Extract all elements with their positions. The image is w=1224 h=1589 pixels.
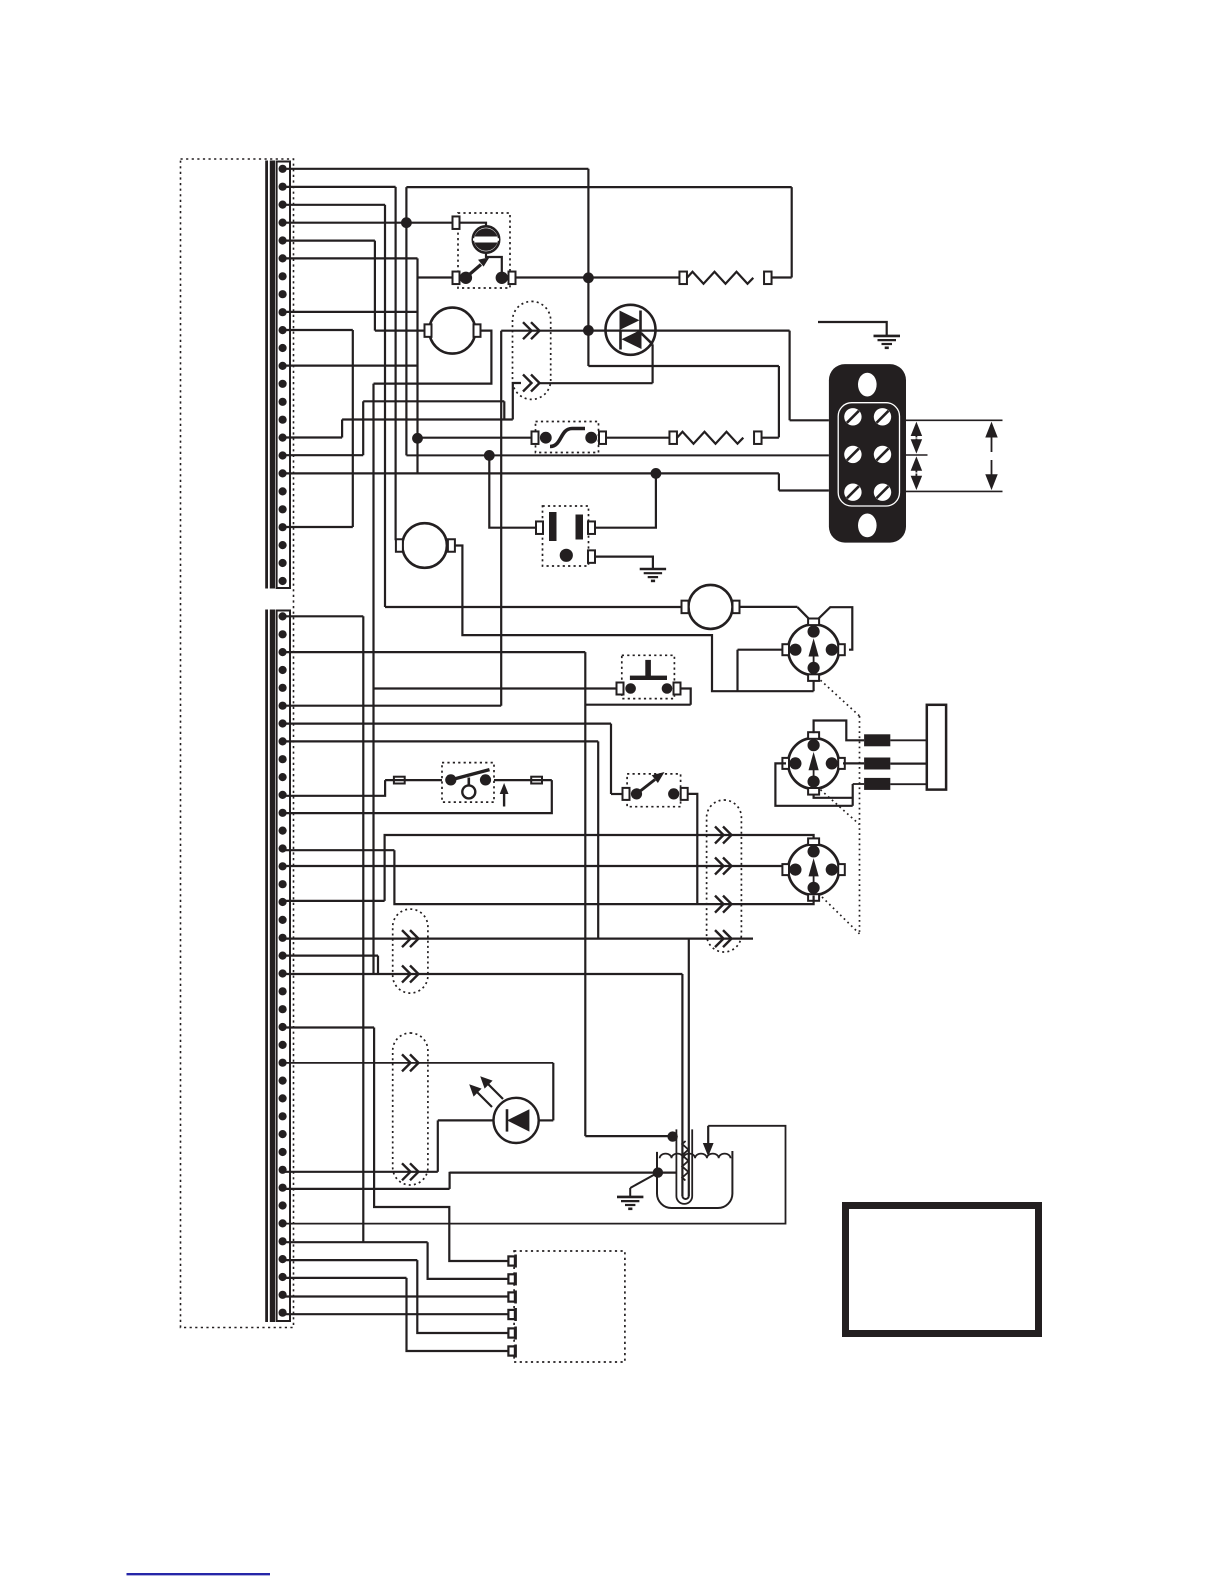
dimension line middle — [906, 454, 928, 456]
thermistor probe sheath — [676, 1129, 692, 1204]
wire L32 jog up to LED — [437, 1120, 439, 1171]
wire row L40 to CB-4 — [283, 1313, 509, 1315]
wire long vertical row3 to motor M3 row — [384, 205, 386, 607]
terminal SW3 right — [674, 683, 681, 695]
wire row5 terminal5 — [283, 240, 375, 242]
terminal strip lower: bars — [265, 610, 268, 1323]
wire SW3 right loop — [681, 689, 691, 705]
wire thermostat ST1 right to resistor R1 — [516, 276, 680, 278]
connector P5 dotted shell (2 pins) — [393, 1033, 428, 1185]
wire M2 right to valve V1 bottom — [455, 546, 814, 692]
dimension arrows outer column — [986, 423, 997, 489]
resistor R1 — [679, 272, 687, 285]
connector block CN1 body — [829, 364, 906, 542]
float switch SW2 dotted box — [442, 763, 494, 803]
wire long bus L3 to thermistor — [584, 652, 586, 1136]
terminal M3 left — [682, 601, 689, 614]
wire thermostat-top feed upper run — [406, 186, 791, 188]
pin P3-2 — [864, 758, 890, 770]
connector P1 dotted shell (2 pins) — [513, 301, 551, 399]
wire row17 run — [363, 400, 504, 402]
wire SW2 row left — [385, 779, 442, 781]
wire snubber drop to resistor R2 — [778, 366, 780, 437]
connector P2 dotted shell (4 pins) — [707, 800, 742, 952]
thermal cutoff switch SW1 dotted box — [536, 422, 599, 453]
wire chevron P1-2 left drop — [513, 383, 521, 420]
SW4 arrow actuator — [639, 772, 665, 792]
wire L38 to CB-6 — [407, 1278, 509, 1351]
wire motor M1 right return — [374, 331, 492, 384]
wire row10 terminal10 — [283, 329, 353, 331]
wire to pin3 — [853, 783, 864, 785]
SW4 contact left — [631, 788, 642, 799]
terminal strip lower: 40 terminal dots — [279, 612, 287, 1316]
terminal M2 left — [396, 539, 403, 552]
wire step to connector bottom row — [778, 473, 780, 490]
junction dot receptacle feed — [651, 468, 662, 479]
wire bus to thermistor top contact — [585, 1135, 672, 1137]
thermostat actuator arrow — [467, 257, 490, 276]
wire SW4 right drop — [688, 794, 698, 904]
dimension line top — [906, 419, 1003, 421]
inline terminal lugs SW2 — [394, 777, 405, 784]
SW2 travel arrow — [500, 783, 509, 807]
wire row L8 — [283, 740, 598, 742]
connector P2 pin2 chevron — [715, 858, 732, 875]
wire L33 jog — [449, 1172, 451, 1189]
wire LED left — [438, 1119, 494, 1121]
wire row L17 — [283, 900, 385, 902]
wire row2 terminal2 — [283, 186, 396, 188]
triac Q1 — [606, 305, 656, 355]
wire row5 drop — [374, 241, 376, 331]
terminal strip upper: bars — [265, 161, 268, 589]
wire thermistor lead right — [688, 939, 690, 1196]
resistor R2 — [669, 431, 677, 444]
wire into connector CN1 top — [790, 419, 829, 421]
SW4 contact right — [668, 788, 679, 799]
wire L37 to CB-5 — [417, 1260, 508, 1333]
wire row16 terminal16 — [283, 436, 342, 438]
wire row16 jog up — [341, 420, 343, 438]
wire L24 to CB-1 — [374, 1028, 509, 1262]
ground G1 symbol — [874, 336, 901, 348]
thermostat ST1 dotted box — [458, 213, 510, 288]
wire M3 right to valve V1 top (V split) — [740, 606, 798, 608]
wire row L7 — [283, 722, 611, 724]
wire motor M3 left feed — [385, 606, 682, 608]
timer assembly dashed enclosure — [181, 159, 294, 1328]
wire L20 jog — [377, 956, 379, 974]
wire chevron P1-1 row to triac — [501, 330, 588, 332]
connector P4 dotted shell (2 pins) — [393, 909, 428, 993]
wire SW3 right to bus — [585, 704, 690, 706]
SW1 bimetal curve — [550, 429, 585, 447]
wire row L19 through P2 pin4 — [283, 937, 753, 939]
wire to push switch SW3 left — [374, 687, 617, 689]
wire row L38 — [283, 1277, 407, 1279]
wire LED right drop — [552, 1063, 554, 1121]
wire row L11 jog — [283, 780, 385, 796]
tank electrode contact — [653, 1167, 663, 1177]
terminal CB-1 — [508, 1256, 515, 1265]
junction dot heater node — [583, 272, 594, 283]
wire row6 terminal6 — [283, 257, 418, 259]
wire L14 to valve V3 bottom — [394, 850, 813, 904]
dotted leader from valve V1 — [821, 680, 860, 716]
wire resistor R2 right stub — [762, 437, 779, 439]
wire L36 to CB-2 — [428, 1242, 509, 1279]
wire row L33 — [283, 1188, 450, 1190]
wire pin3 to header — [890, 783, 927, 785]
connector P5 pin2 chevron — [402, 1163, 419, 1180]
ground G2 symbol — [640, 569, 666, 581]
wire resistor R1 right — [772, 276, 792, 278]
terminal CB-5 — [508, 1328, 515, 1337]
wire pin2 to header — [890, 762, 927, 764]
wire to thermostat ST1 bottom-left — [418, 276, 453, 278]
wire long run to connector CN1 middle — [406, 454, 829, 456]
wire row L33 run to tank electrode — [450, 1171, 677, 1173]
wire row17 terminal17 — [283, 454, 363, 456]
terminal CB-6 — [508, 1346, 515, 1355]
thermostat internal wiring — [460, 223, 487, 227]
SW3 plunger — [645, 660, 651, 677]
wire row17 jog up — [362, 401, 364, 455]
wire row L37 — [283, 1259, 417, 1261]
junction dot triac anode — [583, 325, 594, 336]
wire junction J1 to SW1 — [418, 437, 532, 439]
wire long return bus to thermistor row — [372, 384, 374, 974]
dotted leader from valve V2 — [821, 790, 860, 825]
terminal SW4 right — [681, 788, 688, 800]
wire chevron P1-1 down to terminal L6 row — [500, 331, 502, 706]
wire LED right — [538, 1119, 553, 1121]
connector P4 pin1 chevron — [402, 930, 419, 947]
wire pin1 to header — [890, 739, 927, 741]
water fill arrow — [703, 1126, 714, 1157]
control board connector dotted box — [514, 1251, 625, 1362]
CN1 mounting hole bottom — [858, 514, 877, 538]
connector P2 pin4 chevron — [715, 930, 732, 947]
motor M1 (drive motor) — [429, 308, 475, 354]
water valve V3 — [782, 838, 844, 900]
push switch SW3 dotted box — [622, 655, 675, 698]
wire row L15 to valve V3 left — [283, 865, 783, 867]
receptacle ground pin — [560, 549, 573, 562]
wire row L39 to CB-3 — [283, 1295, 509, 1297]
water valve V2 — [782, 732, 844, 794]
wire row2 drop to motor M2 left — [395, 187, 397, 540]
thermostat contact right — [496, 272, 508, 284]
LED emission arrows — [469, 1076, 503, 1107]
SW3 contact right — [662, 683, 673, 694]
wire valve V2 right to pin2 — [843, 762, 864, 764]
wire row4 terminal4 to thermostat ST1 — [283, 222, 453, 224]
wire SW2 row right — [494, 779, 552, 781]
terminal CB-3 — [508, 1292, 515, 1301]
valve V2 bottom lead — [814, 795, 853, 797]
wire row L6 — [283, 705, 501, 707]
dotted leader from valve V3 — [822, 897, 860, 934]
wire row L36 — [283, 1241, 428, 1243]
wire row17 step down — [503, 401, 505, 419]
thermistor zigzag element — [682, 1141, 688, 1180]
wash tank outline — [657, 1151, 732, 1208]
LED D1 — [493, 1098, 538, 1143]
wire jumper terminal10-terminal21 — [352, 330, 354, 527]
wire valve V1 left lead — [738, 649, 787, 651]
junction dot J1 heater row — [412, 433, 423, 444]
motor M2 (pump motor) — [402, 523, 447, 568]
wire row L3 — [283, 651, 585, 653]
thermostat disc symbol — [473, 226, 499, 252]
valve V2 top lead to pin1 — [814, 721, 865, 741]
terminal thermostat bottom-right — [509, 272, 516, 285]
wire row3 terminal3 — [283, 204, 385, 206]
selector switch SW4 dotted box — [627, 774, 681, 807]
connector P4 pin2 chevron — [402, 966, 419, 983]
SW3 contact left — [625, 683, 636, 694]
connector P2 pin1 chevron — [715, 827, 732, 844]
pin P3-3 — [864, 778, 890, 790]
wire SW2 return row L12 — [283, 780, 552, 813]
thermistor leads bottom bend — [682, 1196, 688, 1199]
wire into connector CN1 bottom — [779, 489, 829, 491]
pin P3-1 — [864, 734, 890, 746]
thermistor top contact — [667, 1131, 677, 1141]
wire triac output drop — [788, 331, 790, 421]
junction dot row4/thermostat feed — [401, 217, 412, 228]
valve V2 left lead — [775, 763, 852, 805]
terminal PL1 right-bottom — [588, 550, 595, 563]
connector P5 pin1 chevron — [402, 1054, 419, 1071]
contact SW1 right — [585, 432, 597, 444]
wire pin3 bus vertical — [852, 784, 854, 806]
wire into SW4 left — [611, 793, 623, 795]
terminal thermostat bottom-left — [453, 272, 460, 285]
header connector shell — [927, 705, 946, 790]
ground G1 wire — [818, 322, 887, 336]
water line — [660, 1154, 731, 1159]
terminal SW4 left — [623, 788, 630, 800]
wire to motor M1 left terminal — [375, 330, 425, 332]
terminal SW1 left — [532, 431, 539, 444]
legend box — [846, 1206, 1039, 1334]
junction dot plug feed — [484, 450, 495, 461]
CN1 inner outline — [838, 403, 899, 506]
connector P1 pin1 chevron — [523, 322, 540, 339]
wire row18 terminal18 long run — [283, 472, 779, 474]
water valve V1 — [782, 619, 844, 681]
wire row21 terminal21 — [283, 526, 353, 528]
connector P2 pin3 chevron — [715, 896, 732, 913]
motor M3 (fan motor) — [689, 585, 733, 629]
CN1 mounting hole top — [858, 373, 877, 397]
SW2 contact left — [445, 774, 456, 785]
wire L17 to valve V3 top — [385, 835, 814, 901]
wire PL1 right-top to junction — [595, 473, 656, 527]
wire thermistor lead left — [681, 974, 683, 1196]
terminal strip upper: 24 terminal dots — [279, 165, 287, 585]
wire long bus L1 down — [362, 616, 364, 1242]
terminal SW1 right — [599, 431, 606, 444]
terminal thermostat top — [453, 216, 460, 229]
dotted leader vertical — [859, 716, 861, 934]
wire SW1 to resistor R2 — [606, 437, 670, 439]
receptacle blades — [549, 512, 557, 541]
dimension arrows inner column — [911, 423, 921, 489]
wire row9 terminal9 — [283, 311, 418, 313]
wire row16 run to chevron P1-2 — [342, 418, 513, 420]
ground G3 lead — [630, 1173, 658, 1188]
wire snubber run — [588, 365, 779, 367]
wire triac row to connector drop — [588, 330, 789, 332]
SW2 contact right — [480, 774, 491, 785]
wire row L35 water-fill loop — [283, 1126, 786, 1224]
wire L7 drop to switch SW4 — [610, 724, 612, 794]
wire PL1 ground lead — [595, 557, 653, 569]
wire row L14 — [283, 849, 394, 851]
wire triac gate vertical — [651, 344, 653, 383]
wire L8 drop — [597, 741, 599, 938]
terminal SW3 left — [617, 683, 624, 695]
SW2 lever — [451, 770, 490, 780]
wire row L1 — [283, 615, 363, 617]
wire to PL1 left — [489, 455, 536, 527]
footer hyperlink underline — [127, 1573, 271, 1575]
thermostat contact left — [460, 272, 472, 284]
ground G3 symbol — [617, 1197, 643, 1209]
wire row L21 thermistor feed — [283, 973, 682, 975]
wire row1 terminal1 to node X1 — [283, 168, 588, 170]
wire row12 terminal12 — [283, 365, 418, 367]
connector P1 pin2 chevron — [523, 375, 540, 392]
wire vertical bus through junction J1 — [416, 258, 418, 473]
wire chevron P1-2 to triac gate — [539, 382, 653, 384]
wire valve V1 bottom lead — [812, 682, 814, 692]
wire vertical through thermostat-top dot — [405, 187, 407, 455]
terminal M3 right — [733, 601, 740, 614]
wire row L32 through P5 pin2 — [283, 1171, 438, 1173]
wire vertical to resistor R1 right — [791, 187, 793, 277]
SW2 float — [467, 778, 470, 786]
wire row L20 — [283, 954, 378, 956]
dimension line bottom — [906, 490, 1003, 492]
terminal CB-2 — [508, 1274, 515, 1283]
terminal PL1 left — [536, 521, 543, 534]
contact SW1 left — [540, 432, 552, 444]
terminal CB-4 — [508, 1310, 515, 1319]
CN1 screws — [844, 408, 861, 425]
wire valve V1 left drop — [736, 650, 738, 692]
terminal PL1 right-top — [588, 521, 595, 534]
wire row L26 through P5 pin1 — [283, 1062, 553, 1064]
wire row L24 — [283, 1026, 374, 1028]
receptacle PL1 dotted box — [543, 506, 589, 566]
terminal M2 right — [448, 539, 455, 552]
wire vertical X1 bus — [587, 169, 589, 366]
